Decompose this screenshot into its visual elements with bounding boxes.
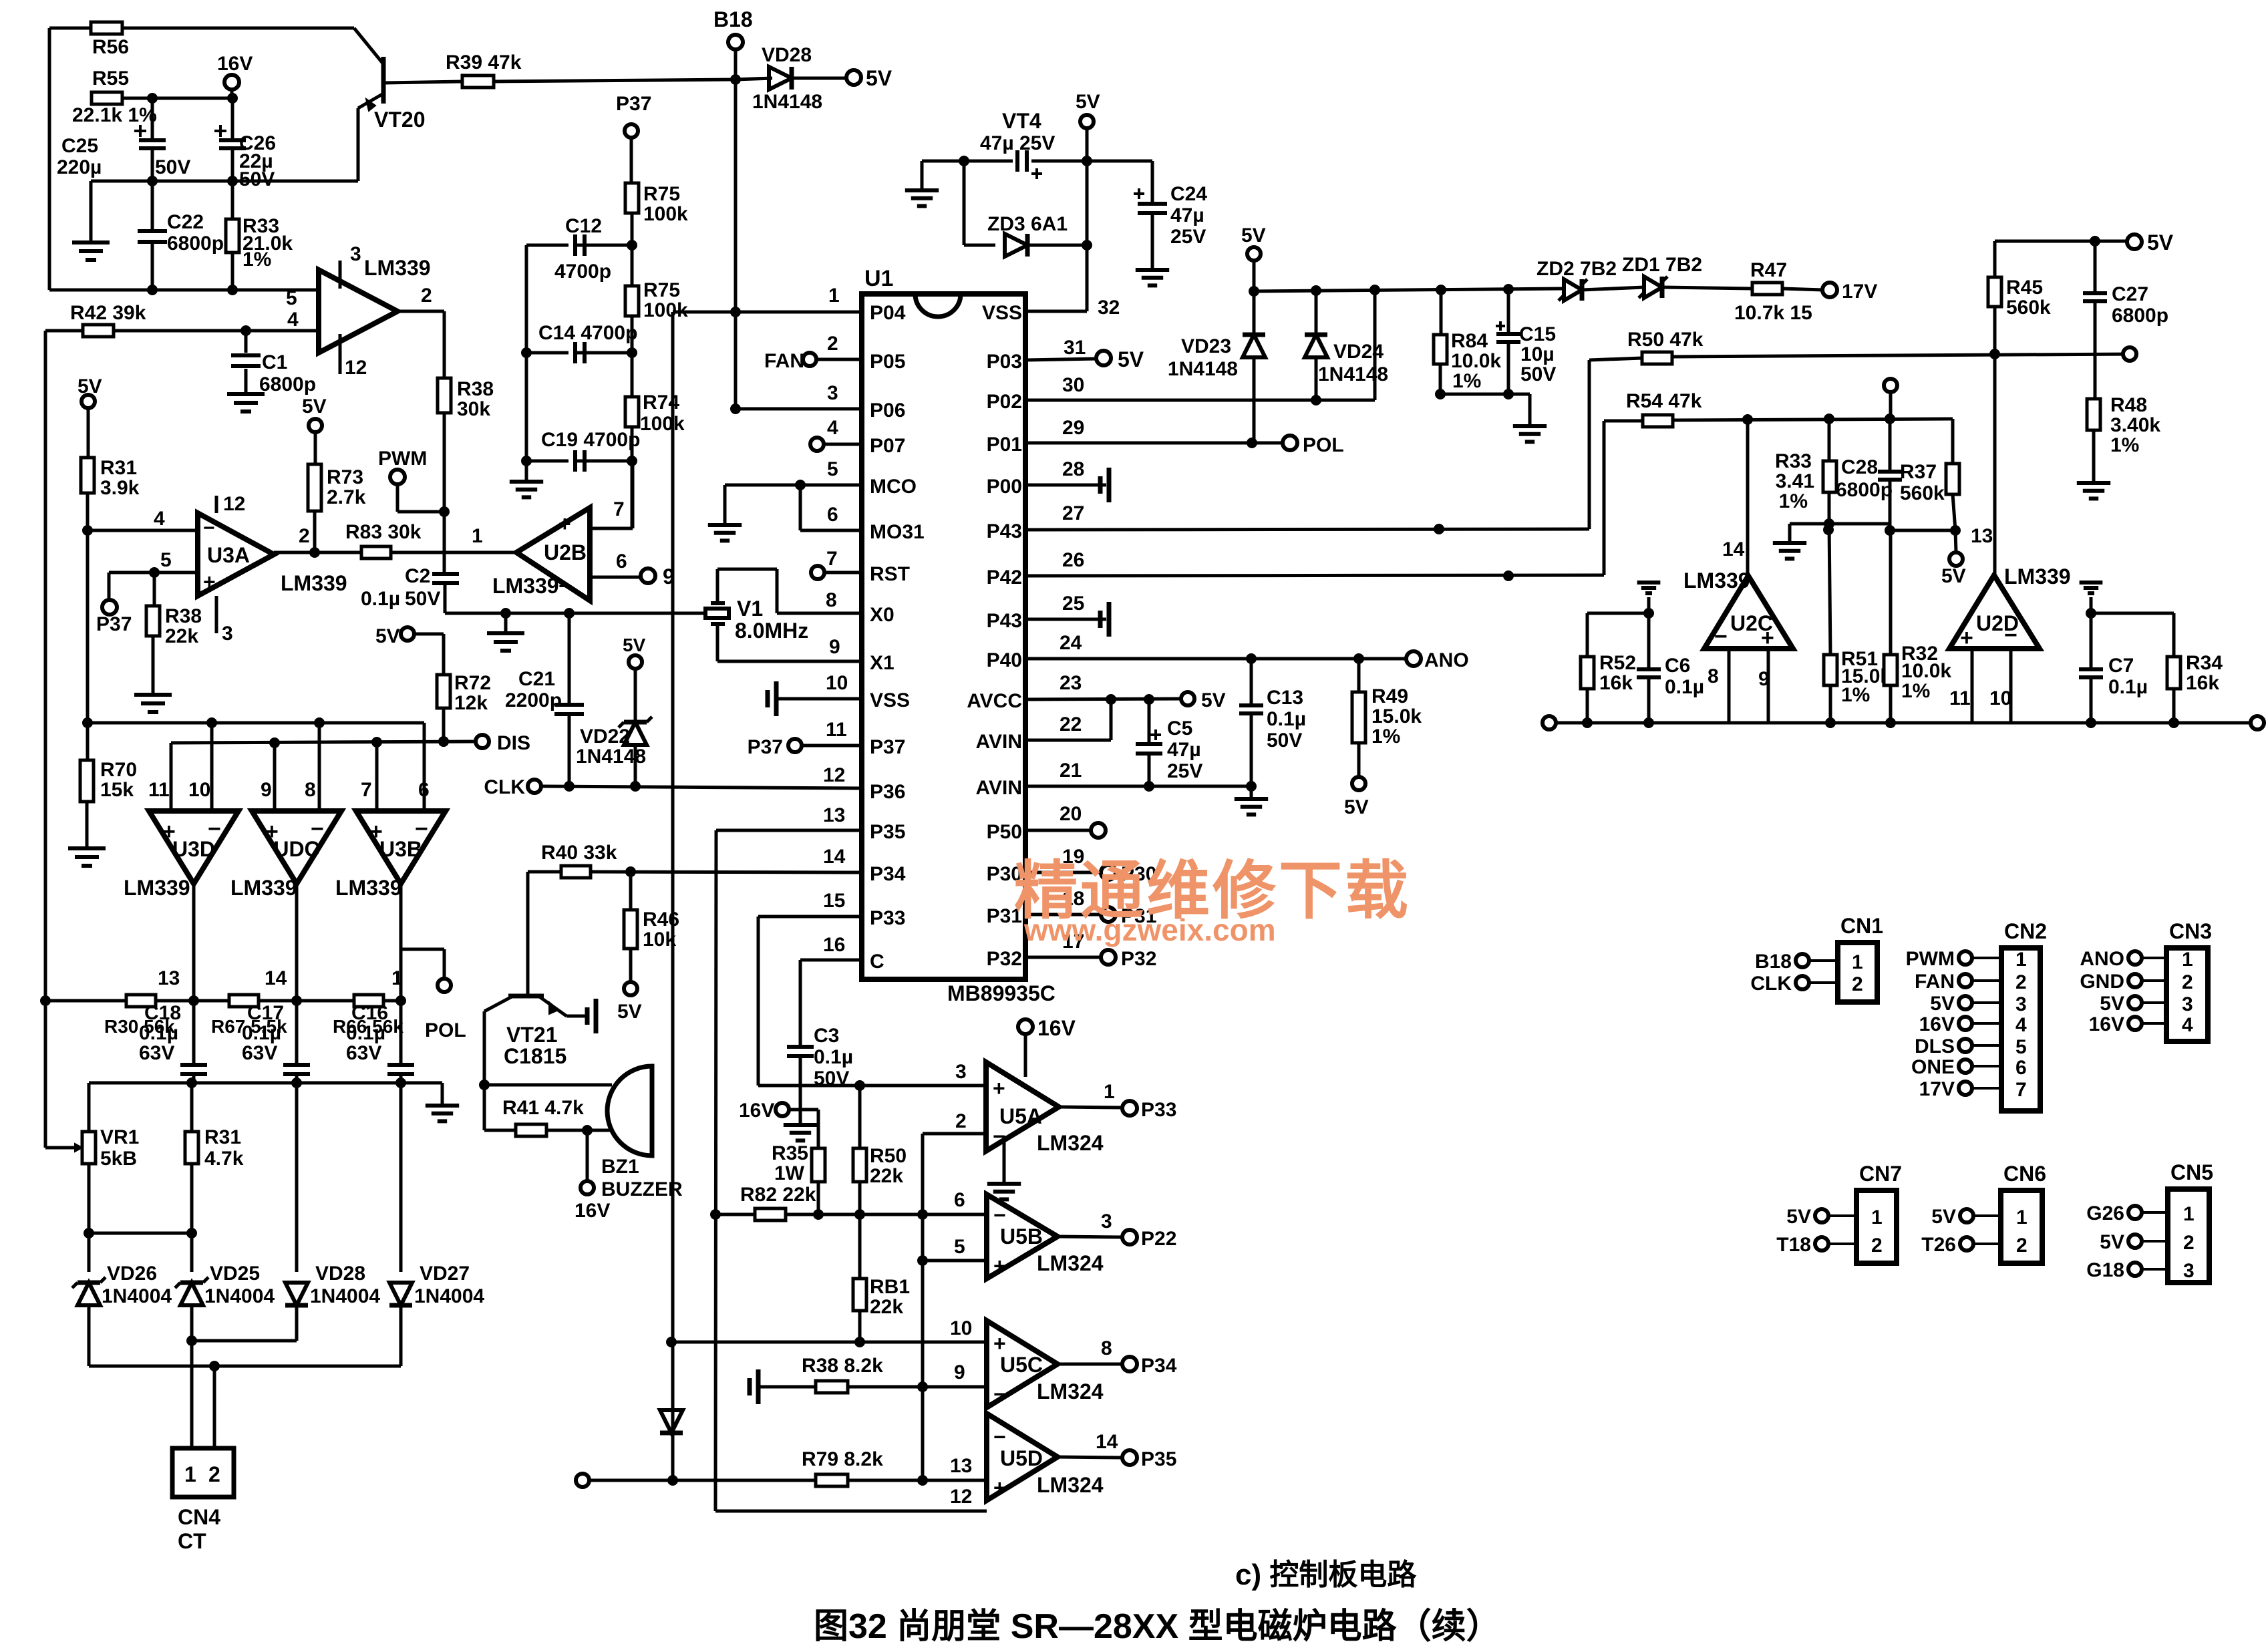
diode VD24 1N4148 <box>1315 291 1318 336</box>
svg-text:13: 13 <box>950 1455 972 1477</box>
svg-text:1%: 1% <box>1371 725 1400 748</box>
CN2 pin 7 17V <box>1959 1082 1972 1095</box>
svg-text:1: 1 <box>472 525 483 547</box>
svg-text:POL: POL <box>1303 434 1344 456</box>
wire P37 to R75 <box>630 138 633 183</box>
pin 1 wire P04 to B18 vertical <box>673 311 862 314</box>
wire R75 junction C12 <box>631 213 634 286</box>
svg-text:−: − <box>2004 623 2017 648</box>
CN2 pin 2 FAN <box>1959 974 1972 987</box>
pin 16 wire C to C3 <box>800 959 862 962</box>
svg-text:R48: R48 <box>2110 394 2147 416</box>
svg-text:C14 4700p: C14 4700p <box>538 322 637 344</box>
svg-text:B18: B18 <box>713 7 753 31</box>
wire R54 line right <box>1673 419 1953 420</box>
wire left rail to R55 <box>48 98 51 290</box>
svg-text:8: 8 <box>826 589 837 611</box>
wire U2C output pin 14 up to R54 <box>1746 420 1750 581</box>
connector CN5 <box>2168 1189 2209 1283</box>
svg-text:5V: 5V <box>1241 224 1266 246</box>
wire 16V to U5A power <box>1018 1019 1033 1034</box>
svg-text:3: 3 <box>955 1061 967 1083</box>
svg-text:10: 10 <box>950 1317 972 1339</box>
zener loop ZD3 6A1 <box>963 161 966 245</box>
capacitor C18 0.1u 63V <box>192 1001 196 1063</box>
svg-text:5V: 5V <box>866 66 893 90</box>
svg-text:8: 8 <box>1708 665 1719 687</box>
svg-text:9: 9 <box>829 636 840 658</box>
terminal 5V below R37 <box>1955 530 1956 552</box>
resistor R30 56k <box>126 995 156 1007</box>
svg-text:R84: R84 <box>1451 330 1488 352</box>
wire R79 line (U5D pin13) <box>576 1474 589 1487</box>
svg-text:+: + <box>993 1476 1006 1500</box>
terminal 5V above R31 <box>82 395 95 408</box>
wire CN4 pin1 <box>190 1341 194 1448</box>
svg-text:C1815: C1815 <box>504 1044 566 1068</box>
resistor R55 22.1k 1% <box>92 92 122 104</box>
svg-text:16V: 16V <box>575 1200 610 1222</box>
terminal DIS <box>476 735 489 748</box>
wire U2C input pin 9 down to bus <box>1767 649 1770 723</box>
svg-text:2: 2 <box>421 285 432 307</box>
resistor R50 22k (U5 area) <box>858 1086 862 1148</box>
svg-text:2: 2 <box>2016 1234 2028 1257</box>
svg-text:12k: 12k <box>454 692 488 714</box>
svg-text:2.7k: 2.7k <box>327 486 366 508</box>
terminal 5V above R73 <box>309 419 322 432</box>
svg-text:12: 12 <box>950 1486 972 1508</box>
svg-text:9: 9 <box>954 1361 965 1383</box>
svg-text:C24: C24 <box>1170 183 1207 205</box>
svg-text:6: 6 <box>616 550 627 572</box>
svg-text:C7: C7 <box>2108 655 2134 677</box>
svg-text:47µ: 47µ <box>1167 739 1201 761</box>
capacitor C15 10u 50V <box>1507 289 1510 333</box>
svg-text:16V: 16V <box>2089 1013 2124 1035</box>
svg-text:0.1µ: 0.1µ <box>242 1022 281 1044</box>
resistor R84 10.0k 1% <box>1440 290 1443 335</box>
wire R50 line from P43 up <box>1588 360 1591 529</box>
svg-text:9: 9 <box>261 779 272 801</box>
svg-text:X1: X1 <box>870 652 895 674</box>
wire U5D output to P35 <box>1058 1457 1122 1458</box>
svg-text:2: 2 <box>2015 971 2027 993</box>
pin 12 tick of LM339 <box>339 334 342 374</box>
wire P35 vertical to U5D pin12 <box>715 830 716 1511</box>
svg-text:R79 8.2k: R79 8.2k <box>802 1448 883 1470</box>
svg-text:1W: 1W <box>774 1162 805 1184</box>
CN6 pin 1 5V <box>1960 1209 1973 1222</box>
svg-text:RST: RST <box>870 563 910 585</box>
terminal 5V near C21 <box>401 627 414 641</box>
svg-text:2: 2 <box>2182 971 2193 993</box>
junction R51/R32 on bus <box>1825 717 1836 728</box>
svg-text:V1: V1 <box>737 597 763 621</box>
svg-text:U1: U1 <box>864 266 893 291</box>
svg-text:PWM: PWM <box>1906 948 1955 970</box>
terminal ANO <box>1406 651 1421 666</box>
svg-text:C19 4700p: C19 4700p <box>541 429 640 451</box>
wire VT21 base down to R41 line <box>483 1011 486 1085</box>
IC U1 MB89935C <box>862 294 1025 979</box>
wire R51 top from R33 bottom <box>1829 524 1830 655</box>
svg-text:BUZZER: BUZZER <box>601 1178 683 1200</box>
svg-text:P06: P06 <box>870 399 905 422</box>
svg-text:U3B: U3B <box>379 837 422 861</box>
ground right of VT21 emitter (sideways) <box>594 999 599 1033</box>
wire R42 line into LM339 pin 4 <box>45 329 319 333</box>
svg-text:1%: 1% <box>2110 434 2139 456</box>
resistor R40 33k <box>561 866 591 878</box>
svg-text:50V: 50V <box>155 156 190 178</box>
svg-text:VT4: VT4 <box>1002 109 1041 133</box>
resistor R82 22k <box>755 1208 786 1220</box>
CN2 pin 4 16V <box>1959 1017 1972 1030</box>
wire U3A pin 5 line <box>109 571 198 574</box>
svg-text:1: 1 <box>1852 951 1863 973</box>
svg-text:C17: C17 <box>247 1002 284 1024</box>
resistor R47 10.7k <box>1752 283 1782 295</box>
svg-text:U5B: U5B <box>1000 1224 1043 1249</box>
svg-text:1N4148: 1N4148 <box>576 746 646 768</box>
terminal POL bottom <box>438 979 451 992</box>
wire R52/C6 top loop + ground <box>1587 612 1649 615</box>
svg-text:1N4148: 1N4148 <box>1168 358 1238 380</box>
svg-text:10: 10 <box>1989 687 2011 709</box>
wire R83 to U2B <box>391 551 516 554</box>
svg-text:ONE: ONE <box>1911 1056 1955 1078</box>
pin 2 wire FAN <box>803 353 816 366</box>
svg-text:AVIN: AVIN <box>976 777 1022 799</box>
resistor R83 30k <box>361 546 391 558</box>
capacitor VT4 47u 25V <box>964 160 1013 163</box>
svg-text:P32: P32 <box>987 948 1022 970</box>
svg-text:R55: R55 <box>92 67 129 90</box>
op-amp U5D LM324 <box>987 1414 1058 1500</box>
svg-text:5: 5 <box>160 549 172 571</box>
svg-text:P37: P37 <box>96 613 132 635</box>
wire R38 8.2k line (U5C pin9) <box>756 1369 761 1404</box>
svg-text:1N4148: 1N4148 <box>1318 363 1388 385</box>
svg-text:2: 2 <box>208 1462 220 1486</box>
pin 10 tick U3D <box>210 723 214 811</box>
svg-text:P04: P04 <box>870 302 906 324</box>
wire X0 pin 8 <box>777 612 862 615</box>
terminal 5V after VD28 <box>846 70 861 85</box>
pin 20 wire P50 <box>1025 829 1092 832</box>
svg-text:5V: 5V <box>2100 1231 2124 1253</box>
svg-text:8.0MHz: 8.0MHz <box>735 619 808 643</box>
connector CN3 <box>2166 948 2208 1041</box>
svg-text:+: + <box>993 1331 1006 1355</box>
wire U5D pin12 line <box>715 1510 987 1513</box>
svg-text:MCO: MCO <box>870 476 917 498</box>
svg-text:63V: 63V <box>139 1042 174 1064</box>
svg-text:0.1µ: 0.1µ <box>2108 676 2148 698</box>
svg-text:CN7: CN7 <box>1859 1162 1902 1186</box>
ground left of VT4 <box>921 161 924 190</box>
ground below R48 <box>2077 481 2110 485</box>
crystal V1 8.0MHz <box>705 609 729 618</box>
svg-text:16k: 16k <box>1599 672 1633 694</box>
wire DIS upper line (pins 10/8/6) <box>88 721 424 725</box>
svg-text:50V: 50V <box>1267 729 1302 752</box>
svg-text:P50: P50 <box>987 821 1022 843</box>
capacitor C16 0.1u 63V <box>399 1001 403 1063</box>
zener ZD1 7B2 <box>1644 277 1662 298</box>
svg-text:0.1µ: 0.1µ <box>1267 708 1306 730</box>
wire R84/C15 bottom to ground <box>1440 393 1530 396</box>
resistor R45 560k <box>1993 241 1997 277</box>
CN3 pin 3 5V <box>2128 996 2142 1009</box>
svg-text:R33: R33 <box>1775 450 1812 472</box>
svg-text:BZ1: BZ1 <box>601 1156 639 1178</box>
svg-text:0.1µ: 0.1µ <box>361 588 400 610</box>
svg-text:4: 4 <box>2015 1014 2027 1036</box>
CN1 pin 1 B18 <box>1796 954 1809 967</box>
svg-text:1: 1 <box>2015 949 2027 971</box>
svg-text:1: 1 <box>2016 1206 2028 1228</box>
svg-text:17V: 17V <box>1919 1078 1955 1100</box>
svg-text:+: + <box>1761 625 1774 651</box>
terminal CLK <box>528 780 541 793</box>
svg-text:5V: 5V <box>77 375 102 397</box>
ground below C13 <box>1250 786 1253 799</box>
svg-text:7: 7 <box>613 498 625 520</box>
svg-text:T18: T18 <box>1776 1234 1811 1256</box>
svg-text:AVCC: AVCC <box>967 690 1022 712</box>
svg-text:11: 11 <box>1949 687 1971 709</box>
capacitor C3 0.1u 50V <box>799 960 802 1045</box>
svg-text:2: 2 <box>2183 1232 2195 1254</box>
capacitor C25 220u 50V <box>151 98 154 139</box>
svg-text:22k: 22k <box>870 1296 903 1318</box>
CN3 pin 4 16V <box>2128 1017 2142 1030</box>
svg-text:FAN: FAN <box>1915 971 1955 993</box>
svg-text:DIS: DIS <box>497 732 530 754</box>
resistor R41 4.7k <box>483 1085 486 1130</box>
pin 12 tick of U3A <box>215 496 218 513</box>
wire U3B output to POL tap <box>401 948 444 951</box>
terminal 5V at P03 <box>1096 351 1111 365</box>
junction bus to C21 <box>564 608 575 619</box>
svg-text:10.0k: 10.0k <box>1451 350 1501 372</box>
svg-text:LM324: LM324 <box>1037 1251 1104 1275</box>
svg-text:12: 12 <box>345 357 367 379</box>
resistor R54 47k <box>1643 415 1673 427</box>
svg-text:26: 26 <box>1062 549 1084 571</box>
CN2 pin 1 PWM <box>1959 951 1972 965</box>
svg-text:15k: 15k <box>100 779 134 801</box>
op-amp U5B LM324 <box>987 1194 1058 1279</box>
resistor R73 2.7k <box>308 464 321 511</box>
wire DIS lower line (pins 11/9/7) <box>171 741 476 743</box>
svg-text:U5C: U5C <box>1000 1353 1043 1377</box>
svg-text:−: − <box>558 574 571 598</box>
svg-text:R38 8.2k: R38 8.2k <box>802 1355 883 1377</box>
svg-text:LM324: LM324 <box>1037 1379 1104 1403</box>
buzzer BZ1 <box>607 1066 652 1156</box>
wire P33 vertical to U5A pin3 <box>757 917 760 1086</box>
wire to C19 junction and U2B pin7 <box>631 427 634 528</box>
svg-text:ANO: ANO <box>2080 948 2124 970</box>
terminal P37 at pin 11 <box>788 739 802 752</box>
svg-text:3: 3 <box>2183 1260 2195 1282</box>
op-amp U5A LM324 <box>986 1062 1059 1151</box>
svg-text:P22: P22 <box>1141 1228 1176 1250</box>
zener ZD2 7B2 <box>1564 279 1582 301</box>
wire R39 line from VT20 <box>385 81 462 83</box>
capacitor C2 0.1u 50V <box>443 512 446 573</box>
ground left of MCO <box>723 485 727 525</box>
svg-text:VD28: VD28 <box>315 1263 365 1285</box>
svg-text:100k: 100k <box>640 413 685 435</box>
svg-text:R52: R52 <box>1599 652 1636 674</box>
svg-text:2200p: 2200p <box>505 689 562 711</box>
svg-text:0.1µ: 0.1µ <box>139 1022 178 1044</box>
svg-text:63V: 63V <box>242 1042 277 1064</box>
svg-text:B18: B18 <box>1755 951 1792 973</box>
wire U3A output to R83 <box>274 551 361 554</box>
svg-text:100k: 100k <box>643 203 688 225</box>
svg-text:CT: CT <box>178 1529 206 1553</box>
svg-text:6800p: 6800p <box>167 232 224 255</box>
svg-text:C25: C25 <box>61 135 98 157</box>
svg-text:R50 47k: R50 47k <box>1627 329 1704 351</box>
diode VD25 1N4004 <box>190 1233 194 1272</box>
svg-text:5V: 5V <box>617 1001 642 1023</box>
wire C28 bottom to R37 bottom <box>1829 522 1890 526</box>
svg-text:5V: 5V <box>1931 1206 1956 1228</box>
svg-text:P42: P42 <box>987 566 1022 589</box>
svg-text:3: 3 <box>2182 993 2193 1015</box>
svg-text:6800p: 6800p <box>1836 479 1893 501</box>
svg-text:14: 14 <box>1722 538 1745 560</box>
wire pin30 P02 line <box>1025 399 1375 402</box>
svg-text:C16: C16 <box>351 1002 388 1024</box>
svg-text:5V: 5V <box>1930 993 1955 1015</box>
pin 3 wire P06 from B18 vertical <box>736 407 862 411</box>
terminal right of bus <box>2251 716 2264 729</box>
capacitor C28 6800p <box>1889 419 1892 470</box>
svg-text:−: − <box>993 1382 1006 1406</box>
svg-text:R47: R47 <box>1750 259 1787 281</box>
svg-text:R31: R31 <box>204 1126 241 1148</box>
svg-text:3: 3 <box>350 243 361 265</box>
svg-text:22: 22 <box>1060 713 1082 735</box>
svg-text:CN1: CN1 <box>1840 914 1883 938</box>
svg-text:C15: C15 <box>1519 323 1556 345</box>
svg-text:LM339: LM339 <box>281 571 347 595</box>
svg-text:C1: C1 <box>262 351 287 373</box>
CN3 pin 2 GND <box>2128 974 2142 987</box>
svg-text:P43: P43 <box>987 520 1022 542</box>
svg-text:7: 7 <box>826 548 838 570</box>
svg-text:LM339: LM339 <box>230 876 297 900</box>
resistor R72 12k <box>437 675 450 708</box>
resistor R39 47k <box>462 75 494 88</box>
svg-text:LM339: LM339 <box>2004 564 2071 589</box>
svg-text:C: C <box>870 951 884 973</box>
svg-text:1: 1 <box>828 285 840 307</box>
svg-text:16: 16 <box>823 934 845 956</box>
wire crystal top loop to X0 <box>716 569 719 603</box>
svg-text:LM339: LM339 <box>1683 568 1750 593</box>
svg-text:22k: 22k <box>165 625 198 647</box>
terminal P37 top <box>625 124 638 138</box>
svg-text:VT20: VT20 <box>374 108 425 132</box>
connector CN4 <box>172 1448 234 1497</box>
pin 6 wire MO31 <box>799 485 802 530</box>
resistor R70 15k <box>86 723 90 760</box>
svg-text:PWM: PWM <box>378 448 427 470</box>
svg-text:VD27: VD27 <box>420 1263 470 1285</box>
svg-text:ANO: ANO <box>1424 649 1469 671</box>
wire ground bus under U2B (C2 bottom corner to crystal) <box>444 584 447 613</box>
svg-text:16V: 16V <box>739 1100 774 1122</box>
CN5 pin 3 G18 <box>2128 1263 2142 1276</box>
svg-text:R34: R34 <box>2186 652 2223 674</box>
svg-text:6: 6 <box>2015 1057 2027 1079</box>
ground below U5A <box>1003 1136 1006 1184</box>
resistor R75 100k (upper) <box>625 183 639 213</box>
svg-text:1%: 1% <box>1841 684 1870 706</box>
svg-text:1N4004: 1N4004 <box>310 1285 380 1307</box>
svg-text:VSS: VSS <box>870 689 910 711</box>
svg-text:47µ: 47µ <box>1170 204 1204 226</box>
wire analog bus <box>1549 721 2257 725</box>
CN6 pin 2 T26 <box>1960 1237 1973 1251</box>
CN3 pin 1 ANO <box>2128 951 2142 965</box>
terminal 16V top-left <box>224 75 239 90</box>
connector CN6 <box>2001 1190 2042 1263</box>
svg-text:LM339: LM339 <box>364 256 431 280</box>
wire base junction to buzzer <box>484 1084 612 1087</box>
svg-text:50V: 50V <box>405 588 440 610</box>
pin 14 wire P34 (R40 line) <box>528 870 561 874</box>
svg-text:1%: 1% <box>1779 490 1808 512</box>
op-amp U3A LM339 <box>198 513 274 596</box>
wire R55 to C25/C26/16V <box>122 97 232 100</box>
svg-text:3: 3 <box>1101 1210 1112 1232</box>
wire U2D pin 10 down to bus <box>2009 649 2013 723</box>
CN2 pin 3 5V <box>1959 996 1972 1009</box>
wire pin29 P01 line to POL <box>1025 442 1282 445</box>
svg-text:10: 10 <box>188 779 210 801</box>
svg-text:R38: R38 <box>165 605 202 627</box>
CN5 pin 2 5V <box>2128 1234 2142 1248</box>
junction VT4 left <box>959 156 969 166</box>
CN2 pin 6 ONE <box>1959 1059 1972 1073</box>
pin 18 wire P31 <box>1025 913 1101 917</box>
wire R82 line (U5B pin6) <box>715 1213 755 1216</box>
svg-text:LM339: LM339 <box>335 876 402 900</box>
wire U2C input pin 8 down to bus <box>1728 649 1731 723</box>
CN1 pin 2 CLK <box>1796 976 1809 989</box>
svg-text:5V: 5V <box>2100 993 2124 1015</box>
terminal 5V above VD23 <box>1247 247 1261 261</box>
resistor R37 560k <box>1951 419 1955 464</box>
pin 22 wire AVIN <box>1025 739 1111 742</box>
resistor R79 8.2k <box>816 1474 848 1486</box>
svg-text:U5A: U5A <box>999 1104 1042 1128</box>
capacitor C1 6800p <box>245 331 248 353</box>
wire R54 left from P42 up <box>1603 421 1606 575</box>
svg-text:VT21: VT21 <box>506 1023 557 1047</box>
capacitor C13 0.1u 50V <box>1250 659 1253 703</box>
CN2 pin 5 DLS <box>1959 1039 1972 1052</box>
